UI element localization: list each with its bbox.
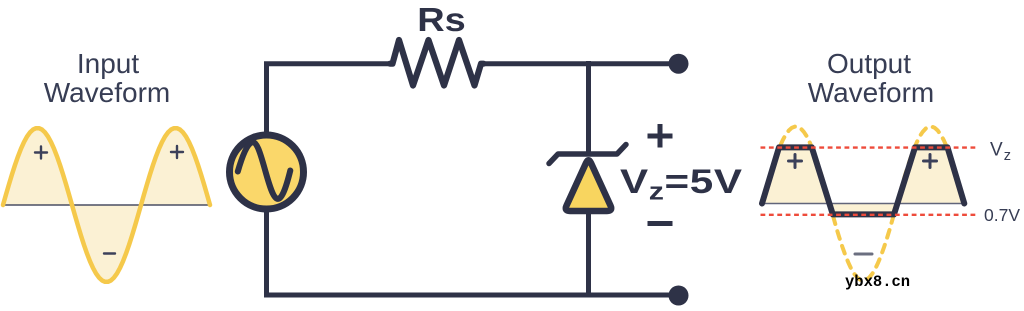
svg-text:Vz: Vz xyxy=(990,140,1011,165)
node: bottom output terminal xyxy=(669,286,689,306)
minus sign at zener xyxy=(648,221,673,226)
output plus sign 2 xyxy=(924,155,937,168)
zener diode D1 cathode bar xyxy=(549,145,626,164)
output plus sign 1 xyxy=(789,155,802,168)
wire: bottom from source to output node xyxy=(264,293,678,298)
wire: zener branch top xyxy=(586,61,591,155)
output unclipped sine (dashed yellow) xyxy=(762,127,965,281)
input waveform sine curve xyxy=(3,128,210,282)
wire: top right from resistor to output node xyxy=(484,61,679,66)
svg-text:Input: Input xyxy=(77,48,139,79)
red dashed line Vz level xyxy=(761,146,978,148)
red dashed line 0.7V level xyxy=(761,214,978,216)
output baseline xyxy=(762,203,965,205)
wire: top left from source to resistor xyxy=(267,64,391,136)
svg-text:ybx8.cn: ybx8.cn xyxy=(845,273,910,291)
svg-text:Vz=5V: Vz=5V xyxy=(620,163,743,205)
AC source V1 xyxy=(230,135,304,209)
input plus sign 2 xyxy=(171,146,183,158)
svg-text:Rs: Rs xyxy=(417,1,466,38)
output waveform fill xyxy=(762,147,964,214)
wire: zener branch bottom xyxy=(586,211,591,295)
output clipped waveform xyxy=(762,147,964,214)
AC source sine symbol xyxy=(238,142,290,199)
svg-text:Output: Output xyxy=(827,48,911,79)
node: top output terminal xyxy=(669,54,689,74)
input plus sign 1 xyxy=(35,147,47,159)
plus sign at zener xyxy=(648,124,673,148)
input waveform fill xyxy=(3,128,210,282)
input waveform baseline xyxy=(3,204,212,206)
svg-text:Waveform: Waveform xyxy=(44,77,171,108)
input minus sign xyxy=(104,252,115,254)
zener diode D1 triangle xyxy=(566,160,611,211)
wire: left vertical below source xyxy=(264,208,269,295)
svg-text:Waveform: Waveform xyxy=(808,77,935,108)
svg-text:0.7V: 0.7V xyxy=(984,205,1020,225)
output minus sign xyxy=(855,253,872,256)
resistor Rs xyxy=(390,40,484,86)
